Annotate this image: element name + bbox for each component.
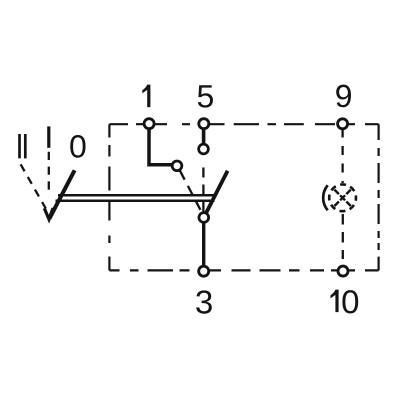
label 1 bbox=[142, 85, 150, 108]
pivot circle bbox=[199, 213, 209, 223]
terminal 10 bbox=[338, 266, 348, 276]
enclosure box bottom edge bbox=[109, 269, 378, 271]
dashed contact line fixed contact to pivot bbox=[180, 171, 201, 212]
label 3 bbox=[196, 290, 212, 313]
dashed wire terminal 9 to lamp bbox=[341, 129, 343, 184]
wire pivot to terminal 3 bbox=[202, 223, 205, 266]
label II (position marker) bbox=[20, 134, 26, 158]
enclosure box left edge bbox=[108, 124, 110, 270]
dashed position line I (vertical) bbox=[48, 152, 50, 196]
enclosure box top edge bbox=[109, 123, 378, 125]
enclosure box right edge bbox=[378, 124, 380, 270]
actuator arrowhead bbox=[44, 208, 53, 219]
wire terminal 1 to fixed contact bbox=[149, 130, 172, 165]
dashed position line II (diagonal) bbox=[21, 164, 46, 208]
terminal 5 bbox=[199, 119, 209, 129]
fixed contact circle (pos II) bbox=[172, 161, 182, 171]
terminal 9 bbox=[338, 119, 348, 129]
terminal 3 bbox=[199, 266, 209, 276]
wire stub under terminal 5 bbox=[202, 130, 206, 144]
dashed wire lamp to terminal 10 bbox=[342, 214, 344, 259]
movable contact lever bbox=[204, 171, 228, 218]
label 9 bbox=[336, 85, 351, 108]
mechanical link double lines bbox=[56, 195, 215, 201]
terminal 1 bbox=[144, 119, 154, 129]
lamp L (dashed circle with X) bbox=[329, 184, 356, 211]
label 10 bbox=[331, 290, 339, 313]
lamp bracket arc bbox=[323, 185, 328, 210]
dashed contact line 5 to pivot bbox=[202, 168, 204, 212]
contact circle under 5 bbox=[199, 144, 209, 154]
label 0 (position marker) bbox=[70, 135, 85, 158]
label 5 bbox=[198, 85, 213, 107]
label I (position marker) bbox=[47, 126, 50, 147]
actuator lever (position 0) bbox=[49, 170, 74, 219]
